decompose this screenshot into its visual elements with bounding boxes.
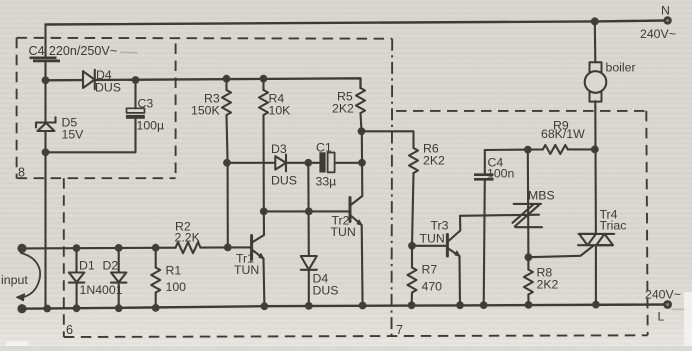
svg-text:TUN: TUN [331, 225, 356, 239]
capacitor C1 [316, 141, 337, 189]
diode D1 [69, 248, 95, 308]
svg-text:TUN: TUN [234, 263, 259, 277]
svg-text:2K2: 2K2 [423, 154, 445, 168]
svg-text:33µ: 33µ [316, 175, 337, 189]
faint scan line right edge [672, 308, 692, 310]
svg-text:D3: D3 [271, 142, 287, 156]
junction R4 top [260, 75, 268, 83]
junction R9 right / triac main [591, 146, 599, 154]
svg-text:7: 7 [396, 323, 403, 337]
junction triac main terminal [592, 301, 600, 309]
junction R2/R3/Tr1 base node [224, 244, 232, 252]
svg-text:240V~: 240V~ [645, 288, 681, 302]
svg-text:100n: 100n [487, 167, 515, 181]
svg-text:C3: C3 [138, 97, 154, 111]
junction R3 top [223, 75, 231, 83]
capacitor C4 [29, 44, 118, 61]
resistor R4 [259, 79, 291, 212]
diode D4 (top) [46, 68, 361, 95]
dashed box 6 [17, 38, 648, 337]
junction R6/R7/Tr3 base node [408, 242, 416, 250]
resistor R3 [191, 79, 231, 248]
wire input top line [22, 247, 176, 250]
junction R1 top [152, 244, 160, 252]
svg-text:L: L [658, 310, 665, 324]
svg-text:C1: C1 [316, 141, 332, 155]
junction C3 top [132, 76, 140, 84]
svg-text:C4: C4 [29, 44, 45, 58]
input connector [1, 244, 40, 314]
wire gate to triac [528, 246, 593, 257]
svg-text:N: N [661, 4, 670, 18]
svg-text:R1: R1 [166, 264, 182, 278]
junction D1 top [73, 244, 81, 252]
wire D4 vertical (node to rail) [307, 163, 310, 306]
MBS symbol [513, 189, 555, 228]
junction supply return on bottom rail [43, 305, 51, 313]
svg-text:DUS: DUS [95, 81, 121, 95]
svg-text:6: 6 [66, 323, 73, 337]
main right vertical [595, 21, 596, 304]
triac Tr4 [578, 208, 626, 246]
junction R9 left / C4 / MBS node [524, 146, 532, 154]
svg-text:2K2: 2K2 [332, 102, 354, 116]
svg-text:Triac: Triac [600, 219, 627, 233]
svg-text:8: 8 [18, 166, 25, 180]
wire R2 to Tr1 base node [201, 246, 228, 248]
wire top N rail [46, 21, 668, 25]
transistor Tr3 [412, 216, 460, 305]
diode D3 [271, 142, 297, 188]
svg-text:150K: 150K [191, 104, 221, 118]
wire D3/C1 row [227, 162, 362, 164]
junction C1/Tr2 collector [358, 159, 366, 167]
junction Tr3 emitter [456, 301, 464, 309]
junction D3/C1/D4 node [304, 159, 312, 167]
diode D2 [103, 248, 127, 308]
svg-text:R7: R7 [422, 263, 438, 277]
resistor R7 [408, 246, 443, 305]
wire left vertical [44, 25, 46, 309]
junction R4/Tr1 collector [260, 208, 268, 216]
junction D1 bottom [73, 304, 81, 312]
boiler [585, 61, 636, 102]
svg-text:Tr3: Tr3 [431, 219, 449, 233]
svg-text:68K/1W: 68K/1W [541, 127, 585, 141]
junction boiler branch on N rail [591, 17, 599, 25]
svg-text:boiler: boiler [606, 61, 636, 75]
MBS branch vertical [527, 150, 530, 258]
junction MBS/R8/gate node [525, 253, 533, 261]
dashed box 7 [396, 111, 648, 335]
svg-text:100µ: 100µ [137, 119, 165, 133]
svg-text:input: input [1, 273, 28, 287]
svg-text:240V~: 240V~ [640, 27, 676, 41]
junction R8 bottom [525, 301, 533, 309]
junction D2 bottom [115, 304, 123, 312]
white scan margins [684, 292, 692, 346]
junction R1 bottom [152, 304, 160, 312]
wire R5 to R6 [362, 131, 414, 148]
junction D5/C3 bottom node [42, 148, 50, 156]
zener D5 [36, 116, 84, 142]
junction D4 anode [305, 208, 313, 216]
resistor R1 [151, 248, 186, 308]
svg-text:470: 470 [422, 280, 443, 294]
junction D4 cathode [305, 302, 313, 310]
svg-text:2.2K: 2.2K [175, 230, 201, 244]
svg-text:15V: 15V [62, 128, 85, 142]
svg-text:TUN: TUN [420, 232, 445, 246]
junction Tr2 emitter [359, 302, 367, 310]
svg-text:D1: D1 [79, 259, 95, 273]
terminal N [640, 4, 676, 42]
capacitor C3 [46, 80, 165, 152]
dashed box 8 [17, 38, 176, 178]
wire Tr3 collector to MBS gate [460, 215, 539, 216]
junction R3/D3 node [223, 159, 231, 167]
svg-text:1N4001: 1N4001 [80, 283, 123, 297]
junction C4/D4 node [42, 76, 50, 84]
faint scan artifact near C4 label [121, 51, 137, 54]
diode D4 (lower) [301, 256, 339, 298]
terminal L [645, 288, 681, 324]
junction R5 bottom / Tr2 collector node [358, 127, 366, 135]
transistor Tr2 [331, 131, 363, 305]
junction Tr1 emitter [261, 302, 269, 310]
svg-text:10K: 10K [269, 104, 292, 118]
resistor R8 [524, 257, 559, 305]
resistor R6 [409, 142, 445, 246]
svg-text:D2: D2 [103, 259, 119, 273]
svg-text:2K2: 2K2 [537, 278, 559, 292]
resistor R9 [528, 119, 595, 155]
junction D2 top [115, 244, 123, 252]
dashed divider 6/7 [391, 39, 394, 337]
svg-text:DUS: DUS [271, 174, 297, 188]
wire bottom rail [22, 305, 668, 309]
transistor Tr1 [228, 211, 265, 306]
junction C4 bottom [480, 301, 488, 309]
junction R7 bottom [408, 301, 416, 309]
capacitor C4 (100n) [474, 150, 528, 306]
svg-text:100: 100 [166, 280, 187, 294]
svg-text:220n/250V~: 220n/250V~ [49, 44, 117, 58]
svg-text:MBS: MBS [528, 189, 555, 203]
wire Tr1 collector node row [264, 210, 349, 212]
resistor R5 [332, 88, 365, 131]
svg-text:DUS: DUS [313, 284, 339, 298]
resistor R2 [176, 242, 201, 253]
